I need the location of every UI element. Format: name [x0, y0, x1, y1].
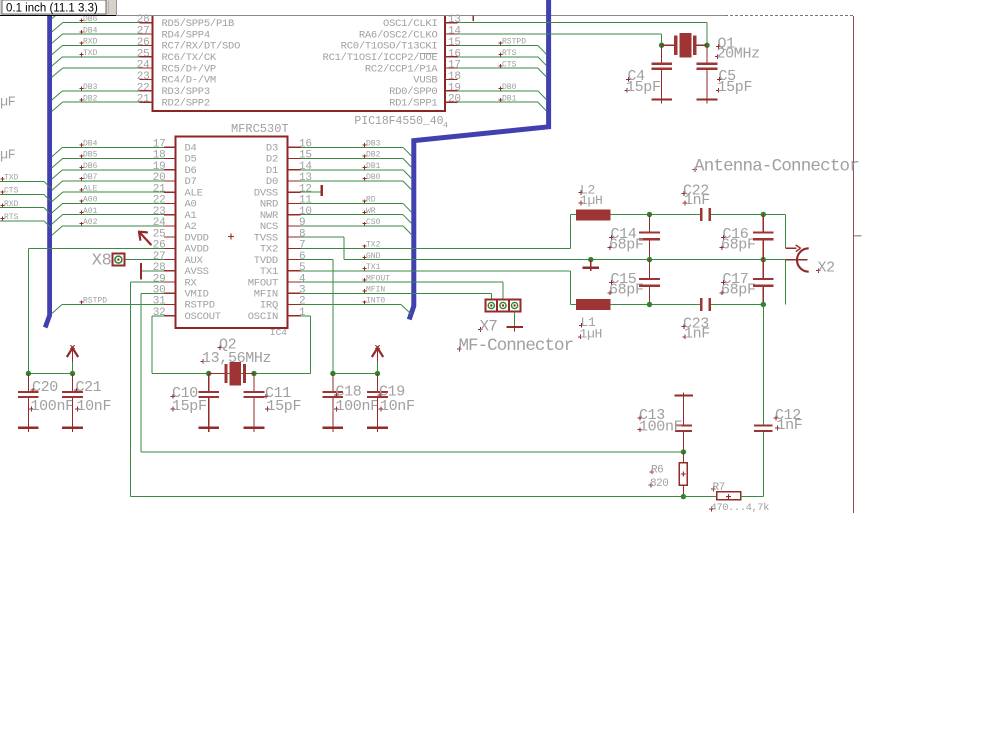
- svg-text:18: 18: [448, 71, 461, 83]
- ground on mid rail: [583, 260, 599, 272]
- svg-text:DB3: DB3: [366, 140, 381, 149]
- wire net A00 IC4 pin 22: [63, 202, 164, 204]
- svg-text:15pF: 15pF: [267, 398, 302, 415]
- net label CTS left: [1, 187, 19, 196]
- IC4 pin 9 stub: [288, 225, 301, 227]
- value 10nF C19: [379, 398, 415, 415]
- svg-text:CTS: CTS: [502, 60, 517, 69]
- svg-text:28: 28: [137, 14, 150, 26]
- wire net RSTPD pin 15: [458, 44, 538, 46]
- svg-text:15pF: 15pF: [718, 79, 753, 96]
- net label RXD: [80, 38, 98, 47]
- svg-text:TVSS: TVSS: [254, 232, 278, 244]
- U1 pin 26 stub: [140, 44, 153, 46]
- junction C11 node: [251, 371, 256, 376]
- svg-text:RX: RX: [185, 277, 198, 289]
- svg-text:IRQ: IRQ: [260, 300, 278, 312]
- net label MFOUT: [363, 274, 391, 283]
- net label CS0: [363, 218, 381, 227]
- bus entry for pin 15: [538, 45, 547, 54]
- junction bottom rail C15: [647, 302, 652, 307]
- value 1nF C23: [683, 326, 710, 343]
- label Q2: [218, 336, 237, 353]
- wire net A02 IC4 pin 24: [63, 225, 164, 227]
- bus entry for pin 28: [52, 23, 63, 32]
- svg-text:D7: D7: [185, 176, 197, 188]
- resistor R7: [717, 492, 741, 500]
- capacitor C4: [651, 45, 672, 103]
- wire net OSCIN IC4 pin 1: [300, 315, 310, 317]
- svg-text:RC4/D-/VM: RC4/D-/VM: [162, 75, 216, 87]
- IC4 pin 22 stub: [164, 202, 176, 204]
- net label TX2: [363, 241, 381, 250]
- wire net AVDD IC4 pin 26: [28, 247, 164, 249]
- value 15pF C10: [171, 398, 207, 415]
- bus entry for IC4 pin 20: [52, 181, 63, 190]
- IC4 pin 3 stub: [288, 292, 301, 294]
- wire net DB0 pin 19: [458, 90, 538, 92]
- svg-text:68pF: 68pF: [721, 237, 756, 254]
- wire net DB6 pin 28: [63, 22, 140, 24]
- svg-text:25: 25: [137, 48, 150, 60]
- svg-text:13: 13: [448, 14, 461, 26]
- wire net OSCOUT IC4 pin 32: [152, 315, 164, 317]
- net label DB4: [80, 140, 98, 149]
- label C21: [74, 379, 102, 396]
- svg-text:RC0/T1OSO/T13CKI: RC0/T1OSO/T13CKI: [341, 41, 438, 53]
- value 68pF C15: [608, 282, 644, 299]
- svg-text:13: 13: [299, 172, 312, 184]
- wire MFOUT drop to X7: [502, 282, 504, 300]
- value 13,56MHz: [201, 350, 272, 367]
- bus entry for RXD: [44, 208, 51, 215]
- label R6: [650, 465, 664, 477]
- svg-text:10nF: 10nF: [380, 398, 415, 415]
- svg-text:A1: A1: [185, 210, 197, 222]
- net label DB2: [80, 94, 98, 103]
- wire net OSC1 pin 13 to crystal: [458, 22, 707, 24]
- wire net DB7 IC4 pin 20: [63, 180, 164, 182]
- svg-text:8: 8: [299, 228, 305, 240]
- label X7: [478, 317, 497, 335]
- svg-text:D0: D0: [266, 176, 278, 188]
- bus entry for IC4 pin 21: [52, 192, 63, 201]
- svg-text:27: 27: [153, 251, 166, 263]
- svg-text:MFOUT: MFOUT: [248, 277, 278, 289]
- svg-text:22: 22: [137, 82, 150, 94]
- wire net DB0 IC4 pin 13: [300, 180, 403, 182]
- ground symbol at AVSS (rotated): [140, 263, 142, 279]
- antenna connector X2: [785, 245, 808, 272]
- value 470...4,7k R7: [709, 502, 769, 514]
- svg-text:WR: WR: [366, 207, 376, 216]
- svg-text:21: 21: [137, 94, 150, 106]
- capacitor C18: [323, 374, 344, 433]
- IC4 pin 4 stub: [288, 281, 301, 283]
- svg-text:32: 32: [153, 307, 166, 319]
- IC4 pin 7 stub: [288, 247, 301, 249]
- label Q1: [716, 35, 735, 52]
- svg-text:1nF: 1nF: [777, 417, 803, 434]
- svg-text:RC6/TX/CK: RC6/TX/CK: [162, 52, 217, 64]
- overbar on UOE pin name: [420, 52, 438, 54]
- svg-text:DB6: DB6: [83, 15, 98, 24]
- frame section tick: [854, 235, 862, 237]
- value 100nF C13: [638, 419, 683, 436]
- svg-text:21: 21: [153, 183, 166, 195]
- svg-text:0.1 inch (11.1 3.3): 0.1 inch (11.1 3.3): [6, 3, 98, 15]
- svg-text:12: 12: [299, 183, 312, 195]
- svg-text:NWR: NWR: [260, 210, 279, 222]
- IC4 pin 31 stub: [164, 304, 176, 306]
- value 15pF C4: [625, 79, 661, 96]
- wire net RSTPD IC4 pin 31: [62, 304, 164, 306]
- svg-text:DB2: DB2: [83, 94, 98, 103]
- svg-text:RSTPD: RSTPD: [502, 38, 526, 47]
- IC4 pin 26 stub: [164, 247, 176, 249]
- svg-text:RD2/SPP2: RD2/SPP2: [162, 97, 210, 109]
- svg-text:X8: X8: [92, 252, 112, 271]
- U1 pin 15 stub: [445, 44, 458, 46]
- IC4 pin 23 stub: [164, 214, 176, 216]
- label C15: [609, 271, 637, 288]
- net label ALE: [80, 184, 98, 193]
- power VCC arrow above C19: [372, 345, 383, 373]
- junction C19 node: [375, 371, 380, 376]
- capacitor C22: [700, 208, 711, 221]
- svg-text:17: 17: [153, 139, 166, 151]
- wire antenna bottom rail left: [610, 304, 700, 306]
- label C16: [721, 226, 749, 243]
- label C20: [31, 379, 59, 396]
- IC4 pin 29 stub: [164, 281, 176, 283]
- IC4 internal origin cross: [228, 234, 234, 240]
- coordinate tooltip panel: [0, 0, 117, 16]
- net label DB1: [499, 94, 517, 103]
- bus entry for IC4 pin 15: [403, 159, 411, 168]
- capacitor C13 with top ground bar: [674, 393, 693, 452]
- net label CTS: [499, 60, 517, 69]
- bus entry for pin 22: [52, 91, 63, 100]
- svg-text:23: 23: [153, 206, 166, 218]
- wire net RX vertical: [130, 282, 132, 497]
- wire net CTS pin 17: [458, 67, 538, 69]
- IC4 pin 30 stub: [164, 292, 176, 294]
- svg-text:RXD: RXD: [4, 200, 19, 209]
- wire net CTS from left edge: [0, 193, 44, 195]
- svg-text:NRD: NRD: [260, 199, 278, 211]
- IC4 pin 32 stub: [164, 315, 176, 317]
- bus entry for IC4 pin 18: [52, 159, 63, 168]
- svg-text:RD3/SPP3: RD3/SPP3: [162, 86, 210, 98]
- svg-text:D3: D3: [266, 143, 278, 155]
- svg-text:1µH: 1µH: [580, 327, 603, 342]
- IC4 pin 24 stub: [164, 225, 176, 227]
- svg-text:DVSS: DVSS: [254, 187, 278, 199]
- capacitor C10: [198, 374, 219, 433]
- value 1uH L1: [578, 327, 602, 342]
- svg-text:OSCOUT: OSCOUT: [185, 311, 221, 323]
- label R7: [711, 482, 725, 494]
- IC4 pin 16 stub: [288, 146, 301, 148]
- wire net TXD from left edge: [0, 180, 44, 182]
- svg-text:68pF: 68pF: [609, 282, 644, 299]
- svg-text:15: 15: [299, 150, 312, 162]
- wire net OSC1 vertical to crystal right node: [706, 23, 708, 46]
- U1 pin 25 stub: [140, 56, 153, 58]
- svg-text:2: 2: [299, 296, 305, 308]
- bus entry for IC4 pin 23: [52, 215, 63, 224]
- net label DB0: [499, 83, 517, 92]
- svg-text:D1: D1: [266, 165, 278, 177]
- capacitor C5: [697, 45, 718, 103]
- crystal Q2: [209, 362, 254, 386]
- svg-text:RTS: RTS: [502, 49, 517, 58]
- bus entry for IC4 pin 17: [52, 147, 63, 156]
- IC4 pin 1 stub: [288, 315, 301, 317]
- svg-text:C20: C20: [32, 379, 58, 396]
- U1 pin 24 stub: [140, 67, 153, 69]
- wire C12 column lower: [762, 432, 764, 497]
- wire net ALE IC4 pin 21: [63, 191, 164, 193]
- bus entry for IC4 pin 24: [52, 226, 63, 235]
- svg-text:R7: R7: [713, 482, 725, 494]
- svg-text:15pF: 15pF: [626, 79, 661, 96]
- svg-text:TX1: TX1: [260, 266, 278, 278]
- svg-text:IC4: IC4: [270, 327, 287, 338]
- wire net CS0 IC4 pin 9: [300, 225, 403, 227]
- U1 pin 21 stub: [140, 101, 153, 103]
- svg-text:22: 22: [153, 195, 166, 207]
- net label RXD left: [1, 200, 19, 209]
- wire TX1 riser to L1: [570, 271, 572, 305]
- svg-text:RD5/SPP5/P1B: RD5/SPP5/P1B: [162, 18, 235, 30]
- net label DB2: [363, 151, 381, 160]
- capacitor C17: [753, 260, 774, 305]
- tick above pin 13 wire: [472, 16, 474, 22]
- wire net DB5 IC4 pin 18: [63, 158, 164, 160]
- IC U1 PIC18F4550 box: [153, 16, 445, 111]
- wire net MFIN IC4 pin 3: [300, 292, 491, 294]
- wire C20-C21 rail: [28, 373, 72, 375]
- svg-text:5: 5: [299, 262, 305, 274]
- U1 pin 17 stub: [445, 67, 458, 69]
- wire OSCIN bottom run: [254, 373, 310, 375]
- label MF-Connector: [457, 336, 573, 356]
- net label DB3: [80, 83, 98, 92]
- label C14: [609, 226, 637, 243]
- net label DB6: [80, 15, 98, 24]
- wire net TXD pin 25: [63, 56, 140, 58]
- connector X8: [112, 254, 124, 266]
- wire TVDD vertical to C18: [332, 260, 334, 374]
- value 1nF C12: [775, 417, 802, 434]
- label C10: [171, 385, 199, 402]
- bus entry for pin 24: [52, 68, 63, 77]
- svg-text:3: 3: [299, 284, 305, 296]
- svg-text:A0: A0: [185, 199, 197, 211]
- wire antenna top rail left: [610, 214, 700, 216]
- capacitor C20: [18, 374, 39, 433]
- wire net DB3 pin 22: [63, 90, 140, 92]
- IC U1 name label PIC18F4550_40: [354, 115, 448, 131]
- capacitor C16: [753, 215, 774, 260]
- svg-text:MFRC530T: MFRC530T: [231, 122, 289, 136]
- svg-text:MF-Connector: MF-Connector: [459, 336, 574, 356]
- IC4 pin 2 stub: [288, 304, 301, 306]
- net label TX1: [363, 263, 381, 272]
- svg-text:MFOUT: MFOUT: [366, 274, 390, 283]
- capacitor C15: [639, 260, 660, 305]
- wire net VMID IC4 pin 30: [141, 292, 164, 294]
- bus entry for TXD: [44, 181, 51, 188]
- IC4 pin 20 stub: [164, 180, 176, 182]
- value 1nF C22: [683, 192, 710, 209]
- junction node crystal right: [704, 43, 709, 48]
- IC4 pin 18 stub: [164, 158, 176, 160]
- svg-text:A2: A2: [185, 221, 197, 233]
- svg-text:24: 24: [137, 60, 150, 72]
- wire antenna top rail right: [711, 214, 785, 216]
- wire net DB2 pin 21: [63, 101, 140, 103]
- svg-text:16: 16: [448, 48, 461, 60]
- svg-text:19: 19: [448, 82, 461, 94]
- svg-text:1nF: 1nF: [684, 192, 710, 209]
- wire net OSCOUT vertical: [151, 316, 153, 374]
- svg-text:A02: A02: [83, 218, 98, 227]
- wire X2 pin2 stub from mid rail: [763, 259, 785, 261]
- U1 pin 18 stub: [445, 78, 458, 80]
- label C18: [334, 384, 362, 401]
- wire net VMID vertical: [140, 293, 142, 452]
- net label TXD: [80, 49, 98, 58]
- net label A01: [80, 207, 98, 216]
- net label MFIN: [363, 285, 386, 294]
- capacitor C12: [754, 424, 772, 432]
- net label DB3: [363, 140, 381, 149]
- wire net OSC2 pin 14 to crystal: [458, 33, 662, 35]
- bus entry for pin 26: [52, 45, 63, 54]
- net label RTS left: [1, 213, 19, 222]
- svg-text:RA6/OSC2/CLKO: RA6/OSC2/CLKO: [359, 29, 438, 41]
- label X2: [816, 260, 835, 277]
- svg-text:CS0: CS0: [366, 218, 381, 227]
- U1 pin 22 stub: [140, 90, 153, 92]
- svg-text:ALE: ALE: [83, 184, 98, 193]
- bus entry for pin 20: [538, 102, 547, 111]
- svg-text:26: 26: [153, 240, 166, 252]
- svg-text:68pF: 68pF: [721, 282, 756, 299]
- wire net DB4 pin 27: [63, 33, 140, 35]
- wire VMID rail: [141, 451, 683, 453]
- bus entry for pin 27: [52, 34, 63, 43]
- bus entry for IC4 pin 14: [403, 170, 411, 179]
- wire net RTS pin 16: [458, 56, 538, 58]
- net label RSTPD: [80, 297, 108, 306]
- svg-text:µF: µF: [0, 96, 16, 111]
- bus entry for IC4 pin 31: [52, 305, 62, 314]
- cursor arrow at DVDD pin 25: [139, 232, 151, 245]
- junction C20 node: [26, 371, 31, 376]
- wire net INT0 IC4 pin 2: [300, 304, 401, 306]
- wire R6 to R7: [683, 496, 716, 498]
- svg-text:VUSB: VUSB: [413, 75, 437, 87]
- wire TX2 riser to L2: [570, 215, 572, 249]
- bus entry for IC4 pin 2: [401, 305, 412, 315]
- bus entry for IC4 pin 19: [52, 170, 63, 179]
- net label RTS: [499, 49, 517, 58]
- svg-text:25: 25: [153, 228, 166, 240]
- wire net DB1 pin 20: [458, 101, 538, 103]
- wire AUX to X8: [124, 259, 163, 261]
- value 68pF C14: [608, 237, 644, 254]
- value 10nF C21: [75, 398, 111, 415]
- bus entry for pin 19: [538, 91, 547, 100]
- svg-text:A00: A00: [83, 196, 98, 205]
- wire net WR IC4 pin 10: [300, 214, 403, 216]
- wire net DB6 IC4 pin 19: [63, 169, 164, 171]
- svg-text:DB4: DB4: [83, 26, 98, 35]
- wire net RXD from left edge: [0, 207, 44, 209]
- value 20MHz: [715, 45, 760, 62]
- svg-text:DB5: DB5: [83, 151, 98, 160]
- canvas top edge line: [117, 15, 725, 17]
- svg-text:MFIN: MFIN: [366, 285, 385, 294]
- svg-text:30: 30: [153, 284, 166, 296]
- label L2: [579, 182, 596, 197]
- wire net TX1 IC4 pin 5: [300, 270, 570, 272]
- svg-text:DB2: DB2: [366, 151, 381, 160]
- svg-text:OSC1/CLKI: OSC1/CLKI: [383, 18, 437, 30]
- IC IC4 MFRC530T box: [175, 137, 287, 328]
- wire net MFOUT IC4 pin 4: [300, 281, 503, 283]
- IC4 pin 27 stub: [164, 259, 176, 261]
- svg-text:OSCIN: OSCIN: [248, 311, 278, 323]
- svg-text:DB1: DB1: [502, 94, 517, 103]
- label C22: [682, 182, 709, 199]
- svg-text:ALE: ALE: [185, 187, 203, 199]
- svg-text:1µH: 1µH: [580, 193, 603, 208]
- svg-text:100nF: 100nF: [336, 398, 379, 415]
- bus entry for pin 25: [52, 57, 63, 66]
- wire net RTS from left edge: [0, 220, 44, 222]
- wire X2 pin2 drop to bottom rail: [784, 260, 786, 305]
- bus entry for pin 17: [538, 68, 547, 77]
- IC4 pin 13 stub: [288, 180, 301, 182]
- svg-text:31: 31: [153, 296, 166, 308]
- IC4 pin 14 stub: [288, 169, 301, 171]
- IC4 pin 8 stub: [288, 236, 301, 238]
- bus entry for IC4 pin 22: [52, 203, 63, 212]
- net label INT0: [363, 297, 386, 306]
- svg-text:17: 17: [448, 60, 461, 72]
- label C11: [264, 385, 292, 402]
- svg-text:4: 4: [443, 121, 448, 131]
- net label A02: [80, 218, 98, 227]
- net label DB0: [363, 173, 381, 182]
- svg-text:TX1: TX1: [366, 263, 381, 272]
- label C12: [774, 407, 801, 424]
- bus entry for IC4 pin 10: [403, 215, 411, 224]
- junction mid rail gnd: [588, 257, 593, 262]
- bus entry for pin 16: [538, 57, 547, 66]
- net label RSTPD: [499, 38, 527, 47]
- wire TVSS jog down: [343, 237, 345, 259]
- wire net TVDD IC4 pin 6: [300, 259, 333, 261]
- net label GND: [363, 252, 381, 261]
- bus B2 vertical, diagonal run, lower vertical and end taper: [409, 0, 548, 320]
- partial bus entry above pin 28: [52, 13, 59, 18]
